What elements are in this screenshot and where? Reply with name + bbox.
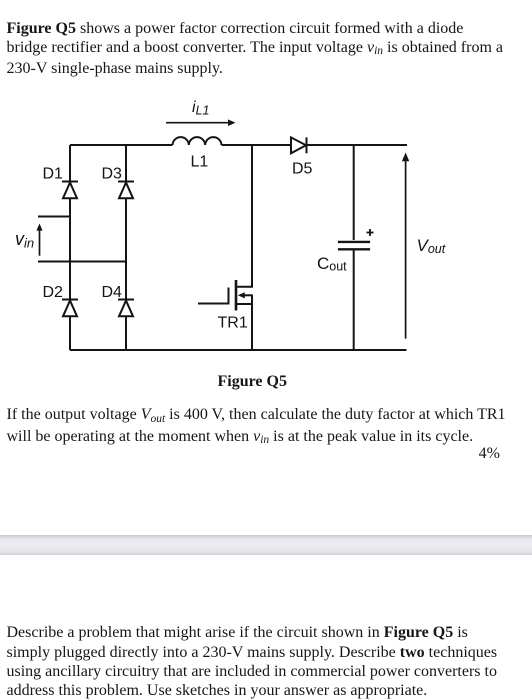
page divider band xyxy=(0,535,532,555)
wire: top rail middle segment (L1 to D5) xyxy=(222,144,292,146)
capacitor Cout top leg xyxy=(353,145,355,240)
wire: second leg below D4 xyxy=(125,316,127,350)
TR1 body arrow xyxy=(238,292,253,298)
wire: bottom rail xyxy=(70,349,407,351)
wire: top rail left segment (bridge top to L1) xyxy=(70,144,173,146)
Vout arrow xyxy=(402,153,409,339)
diode D1 xyxy=(62,182,78,199)
wire: second bridge leg upper (top rail to D3) xyxy=(125,145,127,181)
figure caption xyxy=(218,372,287,391)
svg-text:D5: D5 xyxy=(292,160,313,177)
capacitor plus sign xyxy=(367,229,374,236)
vin arrow xyxy=(36,224,42,256)
diode D4 xyxy=(118,300,134,317)
svg-text:Cout: Cout xyxy=(317,254,347,274)
svg-text:vin: vin xyxy=(15,229,34,251)
iL1 arrow xyxy=(166,119,236,126)
wire: left bridge leg upper (top rail to D1) xyxy=(69,145,71,181)
TR1 channel bar xyxy=(235,280,238,311)
diode D3 xyxy=(118,182,134,199)
paragraph 3 xyxy=(7,623,498,700)
svg-text:TR1: TR1 xyxy=(218,315,248,332)
wire: second leg middle (D3 to D4) xyxy=(125,198,127,299)
svg-text:D4: D4 xyxy=(102,284,123,301)
TR1 source stub xyxy=(237,303,252,305)
capacitor Cout bottom leg xyxy=(353,249,355,350)
diode D5 xyxy=(291,137,307,153)
svg-text:D2: D2 xyxy=(43,284,64,301)
svg-text:D3: D3 xyxy=(102,166,123,183)
paragraph 2 xyxy=(7,405,506,447)
wire: input bottom line (to second leg) xyxy=(38,261,126,263)
svg-text:iL1: iL1 xyxy=(192,99,209,118)
svg-text:D1: D1 xyxy=(43,166,64,183)
wire: top rail right segment (D5 to output) xyxy=(308,144,408,146)
TR1 gate bar xyxy=(228,288,230,305)
svg-text:Vout: Vout xyxy=(417,236,446,256)
capacitor Cout plates xyxy=(338,242,370,249)
svg-text:L1: L1 xyxy=(191,153,209,170)
marks 4% xyxy=(479,444,500,463)
wire: input top stub xyxy=(38,216,70,218)
wire: left leg below D2 xyxy=(69,316,71,350)
TR1 source lead down to bottom rail xyxy=(251,295,253,350)
paragraph 1 xyxy=(7,19,504,79)
transistor TR1 (MOSFET) drain lead xyxy=(237,145,252,287)
diode D2 xyxy=(62,300,78,317)
wire: left bridge leg lower (D1 to bottom rail, crossing input lines) xyxy=(69,198,71,299)
inductor L1 xyxy=(173,137,222,145)
TR1 gate lead xyxy=(198,303,228,305)
